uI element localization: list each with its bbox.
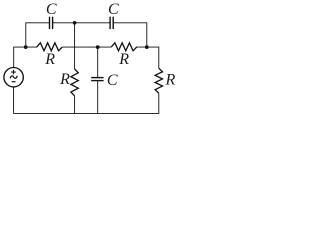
wire: mid vertical from top node down across row 2 to shunt resistor — [74, 23, 76, 69]
wire: row 2 between R1 and R2 (crosses mid vertical, no junction) — [62, 46, 111, 48]
resistor R1 (row-2 left series resistor) — [37, 43, 63, 51]
node dot: input node on row 2 — [24, 45, 28, 49]
svg-text:R: R — [118, 51, 129, 68]
wire: shunt resistor bottom lead to ground rail — [74, 96, 76, 114]
capacitor C1 (top-left series cap) — [50, 17, 53, 29]
wire: top rail right of C2 down to output node — [113, 23, 147, 47]
resistor R (right load resistor) — [155, 68, 162, 93]
svg-text:R: R — [44, 51, 55, 68]
wire: source top lead up to row-2 left corner and right to R1 — [14, 47, 37, 67]
node dot: row-2 mid junction to shunt capacitor — [96, 45, 100, 49]
source sine symbol — [10, 76, 17, 79]
capacitor C (middle shunt cap C3) — [91, 78, 103, 81]
svg-text:R: R — [165, 71, 176, 88]
resistor R (left shunt resistor, mid branch) — [71, 69, 78, 96]
wire: shunt capacitor bottom lead to ground rail — [97, 81, 99, 114]
node dot: output node — [145, 45, 149, 49]
source plus sign — [11, 70, 16, 74]
wire: top rail between C1 and C2 — [53, 22, 111, 24]
svg-text:C: C — [46, 1, 57, 18]
wire: shunt capacitor top lead — [97, 47, 99, 78]
svg-text:C: C — [107, 72, 118, 89]
resistor R2 (row-2 right series resistor) — [111, 43, 137, 51]
wire: left leg from row-2 node up to top rail and right to C1 — [26, 23, 50, 47]
wire: output node jog to load branch — [137, 47, 159, 68]
svg-text:R: R — [59, 71, 70, 88]
svg-text:C: C — [108, 1, 119, 18]
wire: load resistor bottom lead — [158, 93, 160, 113]
node dot: top mid junction between the two capacitors — [73, 21, 77, 25]
capacitor C2 (top-right series cap) — [110, 17, 113, 29]
AC voltage source VS (circle) — [4, 68, 23, 87]
source minus sign — [12, 81, 16, 83]
wire: bottom ground rail — [14, 87, 159, 114]
